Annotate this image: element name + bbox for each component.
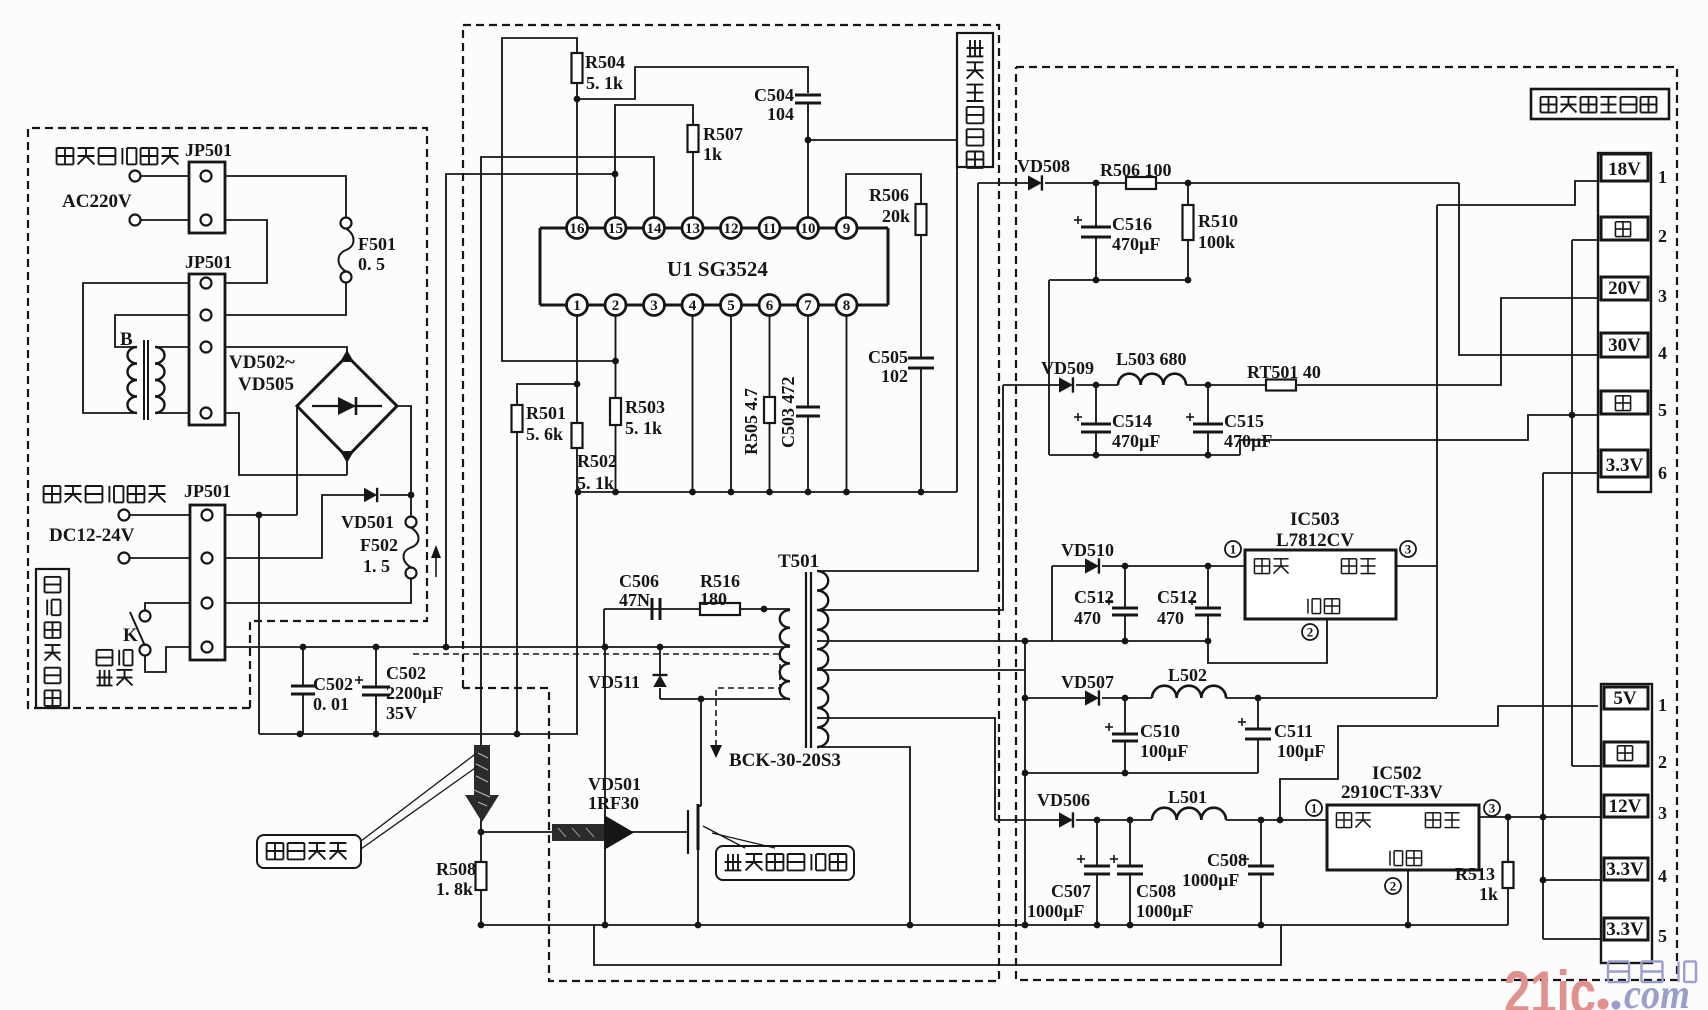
svg-text:VD502~: VD502~ <box>229 352 295 373</box>
svg-text:102: 102 <box>881 366 908 386</box>
svg-text:R505 4.7: R505 4.7 <box>741 388 761 455</box>
svg-text:18V: 18V <box>1608 159 1641 180</box>
svg-text:2: 2 <box>612 298 620 314</box>
svg-text:C502: C502 <box>313 674 353 694</box>
gate node <box>478 829 485 836</box>
svg-text:C514: C514 <box>1112 411 1152 431</box>
svg-text:F502: F502 <box>360 535 398 555</box>
svg-text:0. 01: 0. 01 <box>313 694 349 714</box>
svg-text:100µF: 100µF <box>1277 741 1325 761</box>
capacitor C515 470uF <box>1207 385 1209 424</box>
svg-text:C504: C504 <box>754 85 794 105</box>
output connector (bottom, pins 1-5) <box>1601 684 1652 963</box>
secondary return trunk x=1025 <box>1024 641 1026 925</box>
inductor L502 <box>1152 686 1226 698</box>
wire JP501-1 pin1 to F501 <box>225 176 346 217</box>
wire switch bottom to JP501-3 pin4 <box>145 647 190 672</box>
wire R505 bottom to bus <box>769 423 771 492</box>
wire C504 node to right vertical <box>808 140 957 492</box>
svg-text:470µF: 470µF <box>1112 234 1160 254</box>
svg-text:5. 6k: 5. 6k <box>526 424 563 444</box>
DC output section dashed box 直流输出电路 <box>1016 67 1677 980</box>
fuse F501 <box>341 218 352 229</box>
IC pins 1-8 bottom row <box>567 295 588 316</box>
wire C503 bottom to bus <box>807 416 809 492</box>
svg-text:1k: 1k <box>1479 884 1498 904</box>
svg-text:R501: R501 <box>526 403 566 423</box>
svg-text:2: 2 <box>1390 879 1397 894</box>
VD510 feed from tap <box>1051 566 1053 641</box>
IC502 pin2 mark <box>1385 878 1401 894</box>
svg-text:2: 2 <box>1307 625 1314 640</box>
svg-text:30V: 30V <box>1608 335 1641 356</box>
resistor R503 5.1k <box>610 398 621 425</box>
wire R508 bottom to ground bus <box>480 890 482 925</box>
gate drive wire from pin14 <box>481 157 654 832</box>
IC502 ground stub <box>1407 870 1409 925</box>
label 开关场效应管 box <box>716 846 854 880</box>
svg-text:14: 14 <box>647 221 663 237</box>
ground wire to 地 pin5 <box>1240 415 1598 455</box>
T501 secondary bottom tap to ground bus <box>817 747 910 925</box>
diode VD501 <box>364 488 377 502</box>
svg-text:VD505: VD505 <box>238 374 294 395</box>
svg-text:JP501: JP501 <box>185 252 232 272</box>
svg-text:47N: 47N <box>619 590 650 610</box>
bottom bus y=734 <box>259 733 578 735</box>
svg-text:470µF: 470µF <box>1112 431 1160 451</box>
capacitor C507 1000uF <box>1096 820 1098 866</box>
svg-text:C505: C505 <box>868 347 908 367</box>
svg-text:R513: R513 <box>1455 864 1495 884</box>
leader lines 开关场效应管 <box>703 826 745 848</box>
wire pin4 down <box>692 316 694 493</box>
wire B secondary top to JP501-2 pin3 <box>155 346 189 348</box>
capacitor C512 (2) 470 <box>1207 566 1209 608</box>
wire RT501 to 20V pin3 <box>1296 298 1598 385</box>
wire R501 top link <box>517 384 577 405</box>
svg-text:20V: 20V <box>1608 278 1641 299</box>
svg-text:R510: R510 <box>1198 211 1238 231</box>
IC503 pin1 mark <box>1225 541 1241 557</box>
hatched drive arrow (驱动脉冲 pointer) <box>474 745 490 795</box>
power input section dashed box 电源输入电路 <box>28 128 427 708</box>
capacitor C511 100uF <box>1257 698 1259 729</box>
inductor L503 <box>1118 374 1186 385</box>
svg-text:VD506: VD506 <box>1037 790 1090 810</box>
wire AC in 1 <box>141 175 190 177</box>
connector JP501 (1) <box>189 162 225 233</box>
wire R504 bottom to pin16 <box>576 83 578 218</box>
svg-text:1000µF: 1000µF <box>1027 901 1084 921</box>
main bus y=646 from JP501-3 pin4 <box>225 646 790 648</box>
svg-text:3: 3 <box>650 298 658 314</box>
resistor R506 100 <box>1126 177 1156 189</box>
wire JP501-3 pin2 to VD501 <box>225 495 364 558</box>
svg-text:L503 680: L503 680 <box>1116 349 1187 369</box>
wire 18V pin1 from IC503 output <box>1437 181 1598 205</box>
svg-text:com: com <box>1624 972 1690 1010</box>
svg-text:5: 5 <box>1658 926 1667 946</box>
IC502 pin1 mark <box>1306 800 1322 816</box>
svg-text:U1 SG3524: U1 SG3524 <box>667 257 768 281</box>
svg-text:VD509: VD509 <box>1041 358 1094 378</box>
svg-text:R508: R508 <box>436 859 476 879</box>
svg-text:3: 3 <box>1658 803 1667 823</box>
BCK-30-20S3 dashed leader <box>413 653 780 655</box>
label box 开关振荡电路 (vertical) <box>957 33 993 167</box>
output connector (top, pins 1-6) <box>1598 153 1651 492</box>
diode VD507 <box>1085 690 1099 705</box>
capacitor C508 1000uF (2) <box>1260 820 1262 866</box>
label 直流电源输入 <box>44 485 61 487</box>
IC503 pin2 mark <box>1302 624 1318 640</box>
svg-text:C512: C512 <box>1074 587 1114 607</box>
svg-text:C508: C508 <box>1136 881 1176 901</box>
svg-text:2200µF: 2200µF <box>386 683 443 703</box>
svg-text:R503: R503 <box>625 397 665 417</box>
wire pin7 down <box>807 316 809 408</box>
oscillator ground bus y=492 <box>578 491 957 493</box>
capacitor C514 470uF <box>1095 385 1097 424</box>
regulator IC503 L7812CV box <box>1245 550 1396 619</box>
transformer B primary winding <box>128 347 137 413</box>
svg-text:1000µF: 1000µF <box>1182 870 1239 890</box>
wire R503 bottom to bus <box>615 425 617 492</box>
resistor RT501 40 <box>1266 380 1296 391</box>
svg-text:6: 6 <box>1658 463 1667 483</box>
resistor R510 100k <box>1187 183 1189 205</box>
svg-text:C511: C511 <box>1274 721 1313 741</box>
svg-text:C510: C510 <box>1140 721 1180 741</box>
transformer B secondary winding <box>155 347 164 413</box>
DC input terminal 2 <box>119 553 130 564</box>
svg-text:BCK-30-20S3: BCK-30-20S3 <box>729 750 841 771</box>
drive signal arrow <box>552 824 604 841</box>
capacitor C516 470uF <box>1095 183 1097 227</box>
svg-text:3: 3 <box>1658 286 1667 306</box>
bridge internal diode <box>312 405 382 407</box>
capacitor C506 47N <box>651 598 654 620</box>
wire 3.3V pin5 <box>1543 938 1601 940</box>
svg-text:1. 8k: 1. 8k <box>436 879 473 899</box>
wire R504 top loop <box>502 38 615 361</box>
diode VD508 <box>1028 175 1042 190</box>
wire C506-branch down to ground bus <box>604 647 606 925</box>
wire JP501-2 pin3 to bridge top <box>225 347 347 356</box>
IC503 pin3 mark <box>1400 541 1416 557</box>
svg-text:C503 472: C503 472 <box>778 377 798 449</box>
ground link x=1049 <box>1048 280 1050 455</box>
12V input rail y=566 <box>1102 565 1245 567</box>
capacitor C503 472 <box>796 406 820 409</box>
svg-text:6: 6 <box>766 298 774 314</box>
resistor R513 1k <box>1507 817 1509 862</box>
svg-text:L7812CV: L7812CV <box>1276 530 1354 551</box>
wire VD511 to T501 primary bottom <box>660 698 790 700</box>
wire bridge left vertex down <box>296 406 298 475</box>
svg-text:5. 1k: 5. 1k <box>577 473 614 493</box>
resistor R501 5.6k <box>512 405 523 432</box>
svg-text:IC503: IC503 <box>1290 509 1340 530</box>
T501 secondary tap4 <box>817 669 1025 671</box>
wire JP501-2 pin2 to transformer B primary top <box>115 315 189 347</box>
IC502 labels 输入 输出 接地 <box>1336 812 1351 814</box>
wire L502 out <box>1226 697 1437 699</box>
diode VD510 <box>1085 558 1099 573</box>
svg-text:3: 3 <box>1489 801 1496 816</box>
18V/30V rail y=183 <box>978 182 1028 184</box>
wire 3.3V pin6 top <box>1543 472 1598 474</box>
svg-text:C516: C516 <box>1112 214 1152 234</box>
wire C506 left down to bus <box>603 609 605 647</box>
svg-text:8: 8 <box>843 298 851 314</box>
svg-text:1k: 1k <box>703 144 722 164</box>
capacitor C502 2200uF 35V <box>375 647 377 687</box>
switching oscillator section dashed box 开关振荡电路 <box>463 25 999 981</box>
ground wire y=773 <box>1025 772 1258 774</box>
wire 3.3V pin4 <box>1543 879 1601 881</box>
wire JP501-2 pin4 to bridge <box>225 413 347 475</box>
svg-text:1: 1 <box>1230 542 1237 557</box>
svg-text:C508: C508 <box>1207 850 1247 870</box>
wire F501 bottom to JP501-2 pin2 <box>225 282 346 315</box>
svg-text:5. 1k: 5. 1k <box>625 418 662 438</box>
wire B secondary bottom to JP501-2 pin4 <box>155 412 189 414</box>
svg-text:9: 9 <box>843 221 851 237</box>
svg-text:2: 2 <box>1658 752 1667 772</box>
resistor R505 4.7 <box>764 397 775 423</box>
ground trunk to lower connector 地 pin2 <box>1572 239 1598 241</box>
DC input terminal 1 <box>119 510 130 521</box>
svg-text:100k: 100k <box>1198 232 1235 252</box>
5V rail y=698 <box>1025 697 1085 699</box>
wire pin5 down <box>730 316 732 493</box>
svg-text:1RF30: 1RF30 <box>588 793 639 813</box>
svg-text:R506: R506 <box>869 185 909 205</box>
3.3V trunk x=1543 <box>1542 473 1544 939</box>
svg-text:K: K <box>123 625 138 646</box>
svg-text:100µF: 100µF <box>1140 741 1188 761</box>
lower loop wire y=965 <box>594 925 1281 965</box>
label 电源开关 <box>97 649 113 651</box>
svg-text:3.3V: 3.3V <box>1606 919 1644 940</box>
wire R504 node to C504 top <box>577 67 808 99</box>
wire pin9 to R506 <box>846 174 921 218</box>
svg-text:1: 1 <box>573 298 581 314</box>
IC pins 16-9 top row <box>567 218 588 239</box>
wire R507 bottom to pin13 <box>692 152 694 218</box>
wire VD501 to F502 node <box>380 494 411 496</box>
feedback wire y=174 <box>446 174 615 647</box>
svg-text:R504: R504 <box>585 52 625 72</box>
capacitor C502 0.01 <box>302 647 304 686</box>
T501 secondary tap2 to VD509 feed <box>817 385 1003 610</box>
svg-text:0. 5: 0. 5 <box>358 254 385 274</box>
label box 电源输入电路 (vertical) <box>36 569 69 708</box>
wire DC+ rail with junction <box>225 514 297 516</box>
wire pin1 down <box>576 316 578 424</box>
svg-text:JP501: JP501 <box>185 140 232 160</box>
svg-text:3.3V: 3.3V <box>1606 455 1644 476</box>
svg-text:DC12-24V: DC12-24V <box>49 525 135 546</box>
T501 secondary tap3 ground wire <box>817 640 1208 642</box>
capacitor C512 (1) 470 <box>1124 566 1126 608</box>
IC503 labels 输入 输出 接地 <box>1254 558 1269 560</box>
capacitor C508 1000uF (1) <box>1129 820 1131 866</box>
svg-text:R516: R516 <box>700 571 740 591</box>
transformer T501 core <box>805 572 807 748</box>
svg-text:2: 2 <box>1658 226 1667 246</box>
svg-text:L502: L502 <box>1168 665 1207 685</box>
svg-text:16: 16 <box>570 221 586 237</box>
wire L503 to RT501 <box>1186 384 1266 386</box>
IC503 output wire <box>1396 565 1437 567</box>
svg-text:4: 4 <box>1658 866 1667 886</box>
fuse F502 <box>406 517 417 528</box>
svg-text:3.3V: 3.3V <box>1606 859 1644 880</box>
regulator IC502 2910CT-33V box <box>1327 805 1479 870</box>
wire pin8 down <box>846 316 848 493</box>
svg-text:L501: L501 <box>1168 787 1207 807</box>
svg-text:RT501 40: RT501 40 <box>1247 362 1321 382</box>
5V tap stepped wire to pin1 <box>1280 706 1598 820</box>
wire pin15 up / R507 feed <box>615 105 693 218</box>
svg-text:VD510: VD510 <box>1061 540 1114 560</box>
wire JP501-2 pin1 to transformer B primary bottom <box>83 283 189 413</box>
svg-text:B: B <box>120 329 133 350</box>
T501 secondary tap6 to VD506 feed <box>817 718 995 820</box>
wire pin6 down <box>769 316 771 398</box>
svg-text:21ic: 21ic <box>1504 959 1596 1010</box>
wire F502 bottom to switch rail <box>225 579 411 604</box>
resistor R504 <box>572 53 583 83</box>
svg-text:4: 4 <box>1658 343 1667 363</box>
label 驱动脉冲 box <box>257 835 361 868</box>
transformer T501 secondary winding <box>817 571 828 747</box>
svg-text:AC220V: AC220V <box>62 191 132 212</box>
zener VD511 <box>659 647 661 675</box>
watermark 电子网 <box>1608 960 1629 962</box>
MOSFET source down to ground bus <box>697 848 699 925</box>
capacitor C504 104 <box>795 94 821 97</box>
capacitor C510 100uF <box>1124 698 1126 734</box>
svg-text:3: 3 <box>1405 542 1412 557</box>
connector JP501 (3) <box>190 505 225 660</box>
svg-text:R506 100: R506 100 <box>1100 160 1172 180</box>
svg-text:T501: T501 <box>778 551 819 572</box>
IC503 ground jog <box>1208 619 1327 663</box>
wire JP501-1 pin2 to JP501-2 pin1 <box>225 220 267 283</box>
wire R501 bottom to bottom bus <box>516 432 518 734</box>
vertical x=1437 IC503 out to 18V and 5V rail <box>1436 205 1438 697</box>
svg-text:1: 1 <box>1658 167 1667 187</box>
svg-text:15: 15 <box>608 221 623 237</box>
leader lines 驱动脉冲 <box>361 752 478 841</box>
svg-text:13: 13 <box>685 221 700 237</box>
wire pin2 down <box>615 316 617 399</box>
transformer B core <box>143 340 145 420</box>
wire C504 bottom to pin10 <box>807 103 809 218</box>
snubber wire C506 R516 <box>604 608 790 610</box>
svg-text:1000µF: 1000µF <box>1136 901 1193 921</box>
resistor R506 20k <box>916 204 927 235</box>
diode VD509 <box>1059 377 1073 392</box>
svg-text:20k: 20k <box>882 206 910 226</box>
svg-text:VD501: VD501 <box>341 512 394 532</box>
wire DC in 2 <box>130 557 190 559</box>
svg-text:IC502: IC502 <box>1372 763 1422 784</box>
svg-text:470µF: 470µF <box>1224 431 1272 451</box>
wire AC in 2 <box>141 219 190 221</box>
ground bus y=925 <box>481 924 1508 926</box>
connector JP501 (2) <box>189 274 225 425</box>
AC input terminal 1 <box>130 171 141 182</box>
T501 secondary tap1 to VD508 feed <box>817 183 978 571</box>
resistor R508 1.8k <box>476 862 487 890</box>
20V rail y=385 <box>1003 384 1059 386</box>
svg-text:VD511: VD511 <box>588 672 640 692</box>
resistor R502 5.1k <box>572 423 583 448</box>
svg-text:10: 10 <box>801 221 816 237</box>
label 交流电源输入 <box>57 147 74 149</box>
3.3V input rail y=820 <box>995 819 1059 821</box>
transformer T501 primary winding <box>780 610 790 699</box>
ground wire y=455 <box>1049 454 1240 456</box>
wire bridge bottom vertex down <box>346 457 348 475</box>
wire C505 bottom to bus <box>920 368 922 492</box>
wire bridge right vertex to VD501/F502 node <box>397 406 411 517</box>
wire L501 out to IC502 <box>1226 819 1327 821</box>
svg-text:C507: C507 <box>1051 881 1091 901</box>
svg-text:VD507: VD507 <box>1061 672 1114 692</box>
wire R502 bottom to bus and down <box>576 448 578 734</box>
svg-text:R507: R507 <box>703 124 743 144</box>
svg-text:180: 180 <box>700 589 727 609</box>
ground dots on tap3 wire <box>1022 638 1029 645</box>
svg-text:5. 1k: 5. 1k <box>586 73 623 93</box>
resistor R507 <box>688 125 699 152</box>
svg-text:5V: 5V <box>1613 688 1637 709</box>
svg-text:VD508: VD508 <box>1017 156 1070 176</box>
switch K 电源开关 <box>140 611 151 622</box>
svg-text:C512: C512 <box>1157 587 1197 607</box>
svg-text:35V: 35V <box>386 703 417 723</box>
svg-text:470: 470 <box>1157 608 1184 628</box>
svg-text:F501: F501 <box>358 234 396 254</box>
capacitor C505 102 <box>908 357 934 360</box>
svg-text:1: 1 <box>1311 801 1318 816</box>
vertical wire DC rail down to bottom bus <box>258 515 260 734</box>
wire DC in 1 <box>130 514 190 516</box>
wire bridge to DC rail <box>296 475 298 515</box>
svg-text:5: 5 <box>727 298 735 314</box>
wire drain down to MOSFET <box>700 699 702 806</box>
leader arrow up near F502 <box>435 556 437 577</box>
svg-text:2910CT-33V: 2910CT-33V <box>1341 782 1443 803</box>
IC U1 SG3524 body <box>540 227 888 230</box>
svg-text:1. 5: 1. 5 <box>363 556 390 576</box>
svg-text:4: 4 <box>689 298 697 314</box>
diode VD506 <box>1059 812 1073 827</box>
wire switch top to JP501-3 pin3 <box>145 603 190 611</box>
svg-text:11: 11 <box>762 221 776 237</box>
svg-text:C515: C515 <box>1224 411 1264 431</box>
bridge rectifier VD502-VD505 diamond <box>297 356 397 457</box>
AC input terminal 2 <box>130 215 141 226</box>
svg-text:1: 1 <box>1658 695 1667 715</box>
svg-text:5: 5 <box>1658 400 1667 420</box>
